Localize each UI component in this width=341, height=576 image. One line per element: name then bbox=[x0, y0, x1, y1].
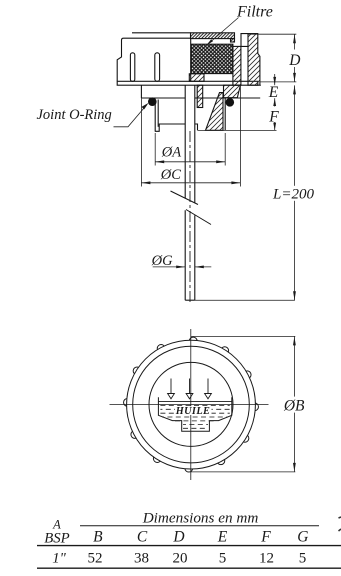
top plate edge line (left, exterior) bbox=[132, 32, 191, 34]
table rule under title bbox=[80, 525, 319, 527]
o-ring left bbox=[148, 97, 157, 106]
thread cone section bbox=[206, 93, 224, 131]
ext F bottom bbox=[198, 129, 277, 131]
dim OA line bbox=[155, 161, 225, 163]
svg-text:ØG: ØG bbox=[151, 253, 173, 269]
rod centerline bbox=[189, 131, 191, 302]
oil tray bbox=[158, 397, 231, 431]
dim D line bbox=[294, 34, 296, 82]
svg-text:Dimensions en mm: Dimensions en mm bbox=[142, 510, 259, 527]
thread crest right bbox=[224, 98, 226, 130]
dim E arrow bbox=[274, 74, 276, 85]
svg-text:D: D bbox=[288, 52, 300, 69]
huile label backing bbox=[175, 406, 212, 415]
dim label OB bbox=[283, 397, 306, 413]
svg-text:C: C bbox=[137, 529, 148, 546]
second circle bbox=[133, 346, 250, 463]
rod end bbox=[185, 299, 195, 301]
break mark line 1 bbox=[171, 191, 199, 205]
outer wall lip bbox=[241, 34, 248, 47]
svg-text:G: G bbox=[297, 529, 308, 546]
knurl lobes bbox=[124, 337, 259, 472]
inner skirt section bbox=[197, 85, 203, 107]
svg-text:D: D bbox=[172, 529, 184, 546]
svg-text:BSP: BSP bbox=[44, 531, 69, 547]
outer circle bbox=[127, 340, 256, 469]
outer wall section bbox=[248, 34, 260, 86]
liquid dashes bbox=[160, 405, 229, 428]
groove top line right bbox=[195, 97, 260, 99]
svg-text:F: F bbox=[260, 529, 271, 546]
svg-text:38: 38 bbox=[134, 551, 149, 567]
svg-text:B: B bbox=[93, 529, 103, 546]
inner circle bbox=[149, 362, 233, 446]
svg-text:E: E bbox=[268, 84, 279, 101]
table bottom rule bbox=[37, 567, 341, 569]
svg-text:ØB: ØB bbox=[283, 398, 305, 415]
o-ring right bbox=[226, 98, 235, 107]
svg-text:20: 20 bbox=[173, 551, 188, 567]
dim OB line bbox=[293, 336, 295, 472]
dim OA ext lines bbox=[154, 133, 156, 166]
ext line E top stub bbox=[258, 84, 261, 86]
svg-text:L=200: L=200 bbox=[272, 187, 314, 203]
dim F arrows bbox=[274, 98, 276, 106]
thread left root bbox=[157, 100, 159, 127]
svg-text:A: A bbox=[52, 517, 61, 531]
svg-text:E: E bbox=[217, 529, 228, 546]
thread bottom faces bbox=[155, 124, 198, 131]
table rule under headers bbox=[37, 545, 341, 547]
svg-text:5: 5 bbox=[299, 551, 307, 567]
crosshair horizontal bbox=[110, 404, 269, 406]
dim label L=200 bbox=[273, 186, 315, 201]
crosshair vertical bbox=[190, 329, 192, 480]
joint o-ring leader bbox=[114, 105, 148, 127]
dim OB ext bottom bbox=[191, 471, 296, 473]
svg-text:1": 1" bbox=[52, 550, 66, 566]
liquid surface bbox=[158, 401, 231, 403]
ext line D bottom bbox=[260, 81, 296, 83]
ext line top (D) bbox=[248, 33, 296, 35]
cap bottom plate bbox=[117, 81, 258, 85]
dim OC line bbox=[141, 182, 240, 184]
knurl rib 1 bbox=[130, 53, 134, 82]
cap exterior outline bbox=[117, 38, 190, 81]
dim OG line left bbox=[153, 266, 186, 268]
rod right edge bbox=[194, 85, 196, 300]
break mark line 2 bbox=[186, 210, 211, 225]
body left edge bbox=[140, 85, 142, 98]
dim OC ext lines bbox=[140, 98, 142, 186]
svg-text:HUILE: HUILE bbox=[175, 406, 211, 417]
top plate hatched strip (section) bbox=[191, 33, 235, 39]
svg-text:Filtre: Filtre bbox=[236, 3, 273, 20]
rod left edge bbox=[184, 85, 186, 300]
svg-text:12: 12 bbox=[259, 551, 274, 567]
oil arrows bbox=[168, 379, 212, 399]
inner wall section bbox=[233, 46, 241, 85]
svg-text:5: 5 bbox=[219, 551, 227, 567]
filter holder left wall bbox=[190, 36, 192, 81]
plate right step bbox=[231, 39, 235, 42]
svg-text:ØC: ØC bbox=[160, 167, 181, 183]
dim L line bbox=[294, 85, 296, 300]
knurl rib 2 bbox=[155, 53, 160, 82]
neck ring right section bbox=[224, 85, 241, 98]
svg-text:Joint O-Ring: Joint O-Ring bbox=[37, 107, 112, 123]
clipped column edge at right bbox=[339, 517, 341, 531]
svg-text:ØA: ØA bbox=[161, 145, 181, 161]
thread left crest bbox=[154, 104, 156, 132]
svg-text:F: F bbox=[268, 109, 279, 126]
label Filtre leader bbox=[207, 18, 239, 46]
dim OG line right bbox=[195, 266, 212, 268]
dim OB ext top bbox=[191, 335, 296, 337]
rod end extension line bbox=[195, 299, 295, 301]
groove top line left bbox=[141, 97, 185, 99]
filter element (cross-hatched) bbox=[191, 44, 233, 73]
svg-text:52: 52 bbox=[88, 551, 103, 567]
strainer base block bbox=[189, 74, 204, 82]
